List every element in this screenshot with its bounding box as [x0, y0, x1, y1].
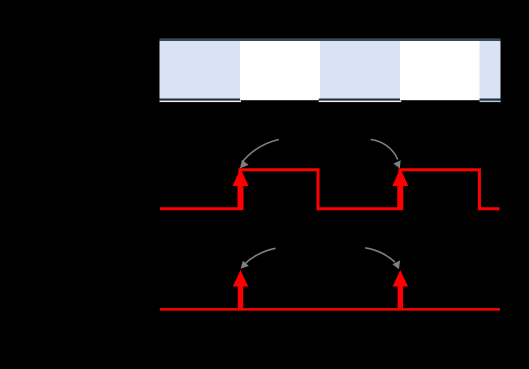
clock period band top border [160, 38, 501, 41]
sample arrow 1 (red, bottom row) [233, 270, 248, 309]
rising-edge arrow 1 (red, mid row) [233, 168, 249, 210]
curved arrow 4 head [392, 260, 400, 269]
clock period cell 4 (white) [400, 41, 480, 100]
curved arrow 1 head [240, 160, 249, 169]
clock period cell 5 bottom highlight [480, 101, 501, 103]
curved arrow 2 head [393, 160, 400, 168]
clock period cell 5 (blue, partial) [480, 41, 501, 99]
curved arrow 3 shaft (gray, bottom row, to first sample arrow) [245, 248, 276, 263]
curved arrow 4 shaft (gray, bottom row, to second sample arrow) [365, 248, 395, 262]
curved arrow 1 shaft (gray, mid row, to first rising edge) [243, 140, 279, 162]
curved arrow 2 shaft (gray, mid row, to second rising edge) [371, 140, 398, 160]
rising-edge arrow 2 (red, mid row) [392, 168, 408, 210]
clock period cell 1 (blue) [160, 41, 241, 99]
clock period cell 2 (white) [240, 41, 320, 100]
clock period cell 3 (blue) [320, 41, 400, 99]
clock period cell 3 bottom highlight [319, 101, 402, 103]
curved arrow 3 head [241, 261, 249, 269]
timeline (red, bottom row) [160, 308, 500, 311]
clock period cell 1 bottom border [160, 99, 241, 101]
clock waveform (red square wave) [160, 170, 500, 209]
clock period cell 5 bottom border [480, 99, 501, 101]
clock period cell 1 bottom highlight [160, 101, 242, 103]
sample arrow 2 (red, bottom row) [393, 270, 408, 309]
clock period cell 3 bottom border [319, 99, 402, 101]
